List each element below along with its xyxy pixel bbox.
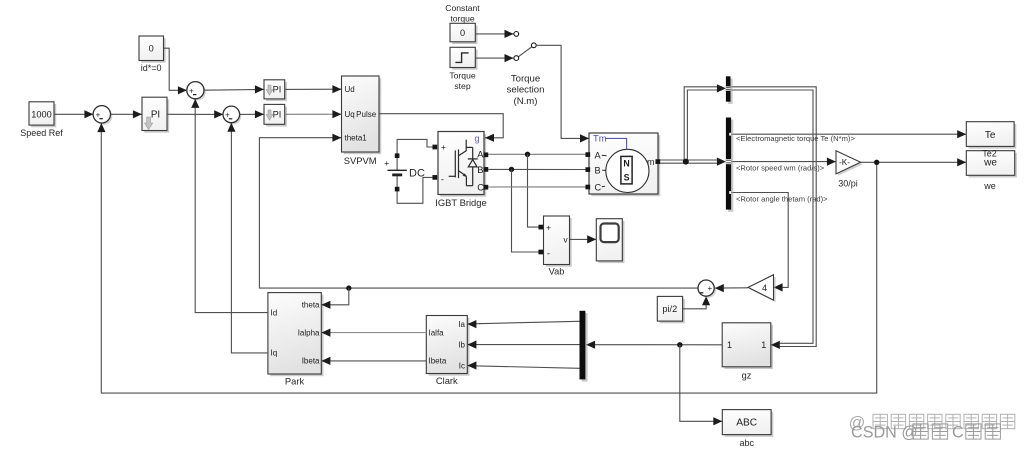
svg-text:(N.m): (N.m) [514,96,538,107]
svg-text:Ialfa: Ialfa [429,328,445,337]
DC source battery symbol [388,169,407,171]
svg-text:4: 4 [762,283,767,293]
svg-text:PI: PI [273,110,282,120]
svg-text:v: v [563,235,568,245]
svg-text:-: - [547,248,550,259]
Torque step icon [455,53,468,63]
block Constant torque 0 [452,26,477,45]
wire Clark Ibeta to Park Ibeta [322,360,426,362]
wire switch common to motor Tm [536,45,589,138]
wire demux Ic to Clark Ic [468,366,580,369]
motor port labels and stubs [602,154,607,157]
svg-text:Ibeta: Ibeta [429,357,447,366]
block PMSM motor [591,135,660,196]
gain 4 triangle (left pointing) [750,277,775,302]
wire Clark Ialfa to Park Ialpha [322,332,426,334]
wire sum S1 to PI [111,113,143,115]
svg-text:1: 1 [761,340,766,350]
wire speed feedback wm long bottom line to sum S1 [101,123,876,393]
block Torque step source [452,50,477,70]
Scope screen icon [601,224,619,243]
wire branch down to ABC block [680,345,723,422]
PI d icon text [266,85,273,95]
svg-text:we: we [983,158,997,169]
wire PI to sum S3 [167,113,223,115]
svg-text:0: 0 [149,44,154,54]
wire gz output to demux [586,344,722,346]
svg-text:PI: PI [151,109,160,120]
svg-text:SVPVM: SVPVM [344,155,377,166]
node bus junction at motor output [683,159,689,165]
wire Torque step to switch lower contact [475,57,513,59]
svg-text:A: A [595,150,602,160]
node junction speed feedback tap [874,160,879,165]
svg-text:DC: DC [409,167,425,179]
sum junction S2 (id error) [189,83,206,100]
svg-text:m: m [647,157,655,167]
svg-text:+: + [225,111,230,120]
svg-text:S: S [624,173,630,183]
wire id*=0 constant to sum S2 [164,48,188,90]
svg-text:id*=0: id*=0 [141,63,162,73]
PI block icon text [145,117,153,130]
svg-text:gz: gz [742,371,752,381]
svg-text:IGBT Bridge: IGBT Bridge [435,197,486,208]
svg-text:abc: abc [739,438,754,448]
svg-text:B: B [477,164,483,175]
svg-text:theta: theta [302,301,320,310]
node junction Vab+ tap on phase A [525,152,530,157]
wire Speed Ref to sum S1 [54,113,94,115]
block pi/2 constant [660,299,685,324]
wire pi/2 to sum S4 [683,297,707,309]
wire Park Iq to sum S3 [231,123,268,353]
svg-text:Tm: Tm [593,133,607,144]
svg-text:torque: torque [450,13,475,23]
motor port squares [585,152,590,157]
svg-text:C: C [477,181,484,192]
block IGBT Bridge [440,134,486,197]
svg-text:C: C [952,424,964,442]
wire demux Ib to Clark Ib [468,344,580,346]
svg-text:g: g [474,133,479,144]
svg-text:B: B [595,165,601,175]
block we display [969,153,1017,178]
wire tap A down to Vab + [528,154,539,227]
svg-text:step: step [454,81,470,91]
svg-text:<Rotor speed wm (rad/s)>: <Rotor speed wm (rad/s)> [736,164,825,173]
wire IGBT B to motor B [488,168,586,170]
svg-text:Speed Ref: Speed Ref [20,128,63,138]
svg-text:0: 0 [460,28,465,38]
svg-text:-: - [441,174,444,185]
svg-text:Constant: Constant [445,3,480,13]
wire tap B down to Vab - [512,169,539,252]
IGBT Bridge port squares [432,145,437,150]
block PI speed controller [144,99,169,132]
IGBT Bridge interior symbol [449,175,456,177]
svg-text:Vab: Vab [549,266,565,276]
node junction gz output to ABC branch [677,342,682,347]
svg-text:1: 1 [727,340,732,350]
block Park transform subsystem [270,295,323,376]
svg-text:Te: Te [985,130,996,141]
wire sum S3 to PI q [240,113,264,115]
block PI q-axis current controller [266,107,287,127]
wire selector wm output to gain 30/pi [731,161,836,163]
svg-text:Ialpha: Ialpha [298,328,320,337]
svg-text:Id: Id [271,308,278,317]
wire selector Te output to Te display [731,133,966,135]
wire PI q to SVPVM Uq [285,113,342,115]
wire IGBT A to motor A [488,153,586,155]
svg-text:theta1: theta1 [345,134,368,143]
wire theta feedback long line from sum S4 to SVPVM theta1 [259,138,698,288]
block Clark transform subsystem [429,318,470,376]
svg-text:C: C [595,183,602,193]
svg-text:Torque: Torque [449,71,475,81]
wire PI d to SVPVM Ud [285,88,342,90]
svg-text:Pulse: Pulse [356,110,377,119]
svg-text:+: + [384,158,389,168]
wire DC source positive to IGBT + [397,139,432,170]
block Scope [599,221,625,263]
bus selector 2 bar [728,120,733,212]
svg-text:N: N [623,158,629,168]
wire motor m bus to selectors (double line) [660,87,722,160]
svg-text:30/pi: 30/pi [838,178,858,188]
svg-text:Park: Park [285,376,305,387]
svg-text:Ib: Ib [458,340,465,349]
wire Park Id to sum S2 [195,99,268,313]
svg-text:+: + [96,110,101,119]
wire demux Ia to Clark Ia [468,321,580,324]
block ABC goto [725,412,774,437]
svg-text:<Rotor angle thetam (rad)>: <Rotor angle thetam (rad)> [736,194,828,203]
svg-text:Clark: Clark [436,375,458,386]
svg-text:Ia: Ia [458,320,465,329]
svg-text:selection: selection [507,85,545,96]
motor Tm blue wire and label [605,138,627,149]
wire IGBT C to motor C [488,186,586,188]
sum junction S4 (theta calc) [700,282,716,298]
svg-text:Ud: Ud [345,85,355,94]
node theta branch junction [346,285,351,290]
block id*=0 constant [141,38,166,63]
svg-text:CSDN @: CSDN @ [851,424,918,442]
svg-text:Uq: Uq [345,110,355,119]
svg-text:<Electromagnetic torque Te (N*: <Electromagnetic torque Te (N*m)> [736,134,855,143]
demux bar [582,313,588,382]
wire gain 30/pi output to we display [861,161,967,163]
svg-text:Iq: Iq [271,349,278,358]
svg-text:-K-: -K- [839,158,850,167]
svg-text:+: + [441,142,446,152]
svg-text:Torque: Torque [511,73,540,84]
wire sum S2 to PI d [204,88,264,91]
wire gain 4 output to sum S4 [715,287,748,289]
gain 30/pi triangle -K- [838,153,863,176]
svg-text:PI: PI [273,85,282,95]
wire theta branch to Park theta [321,288,349,305]
wire DC source negative to IGBT - [397,175,432,204]
svg-text:we: we [983,181,996,191]
bus selector 1 bar [728,79,733,104]
sum junction S3 (iq error) [225,108,242,125]
PI q icon text [266,110,273,120]
wire bus selector1 output to gz (double line) [731,87,817,347]
svg-text:Ic: Ic [459,361,465,370]
svg-text:ABC: ABC [736,418,757,429]
svg-text:pi/2: pi/2 [662,304,677,314]
svg-text:+: + [707,284,712,293]
motor PMSM interior [606,149,649,192]
wire SVPVM Pulse to IGBT gate g [379,114,503,138]
block SVPVM subsystem [344,78,382,154]
wire Constant torque to switch upper contact [475,33,513,35]
block PI d-axis current controller [266,82,287,101]
block Vab voltage measurement [546,218,572,267]
svg-text:1000: 1000 [31,110,51,120]
sum junction S1 (speed error) [95,107,112,124]
svg-text:+: + [546,222,551,232]
svg-text:A: A [477,149,484,160]
wire selector thetam output to gain 4 [731,193,788,288]
svg-text:+: + [189,86,194,95]
wire Vab v to Scope [570,238,597,240]
node junction Vab- tap on phase B [509,167,514,172]
block Speed Ref constant 1000 [31,104,56,127]
block gz subsystem [724,325,773,369]
manual switch Torque selection lever [518,47,532,57]
svg-text:Ibeta: Ibeta [302,357,320,366]
block Te display [969,124,1017,149]
